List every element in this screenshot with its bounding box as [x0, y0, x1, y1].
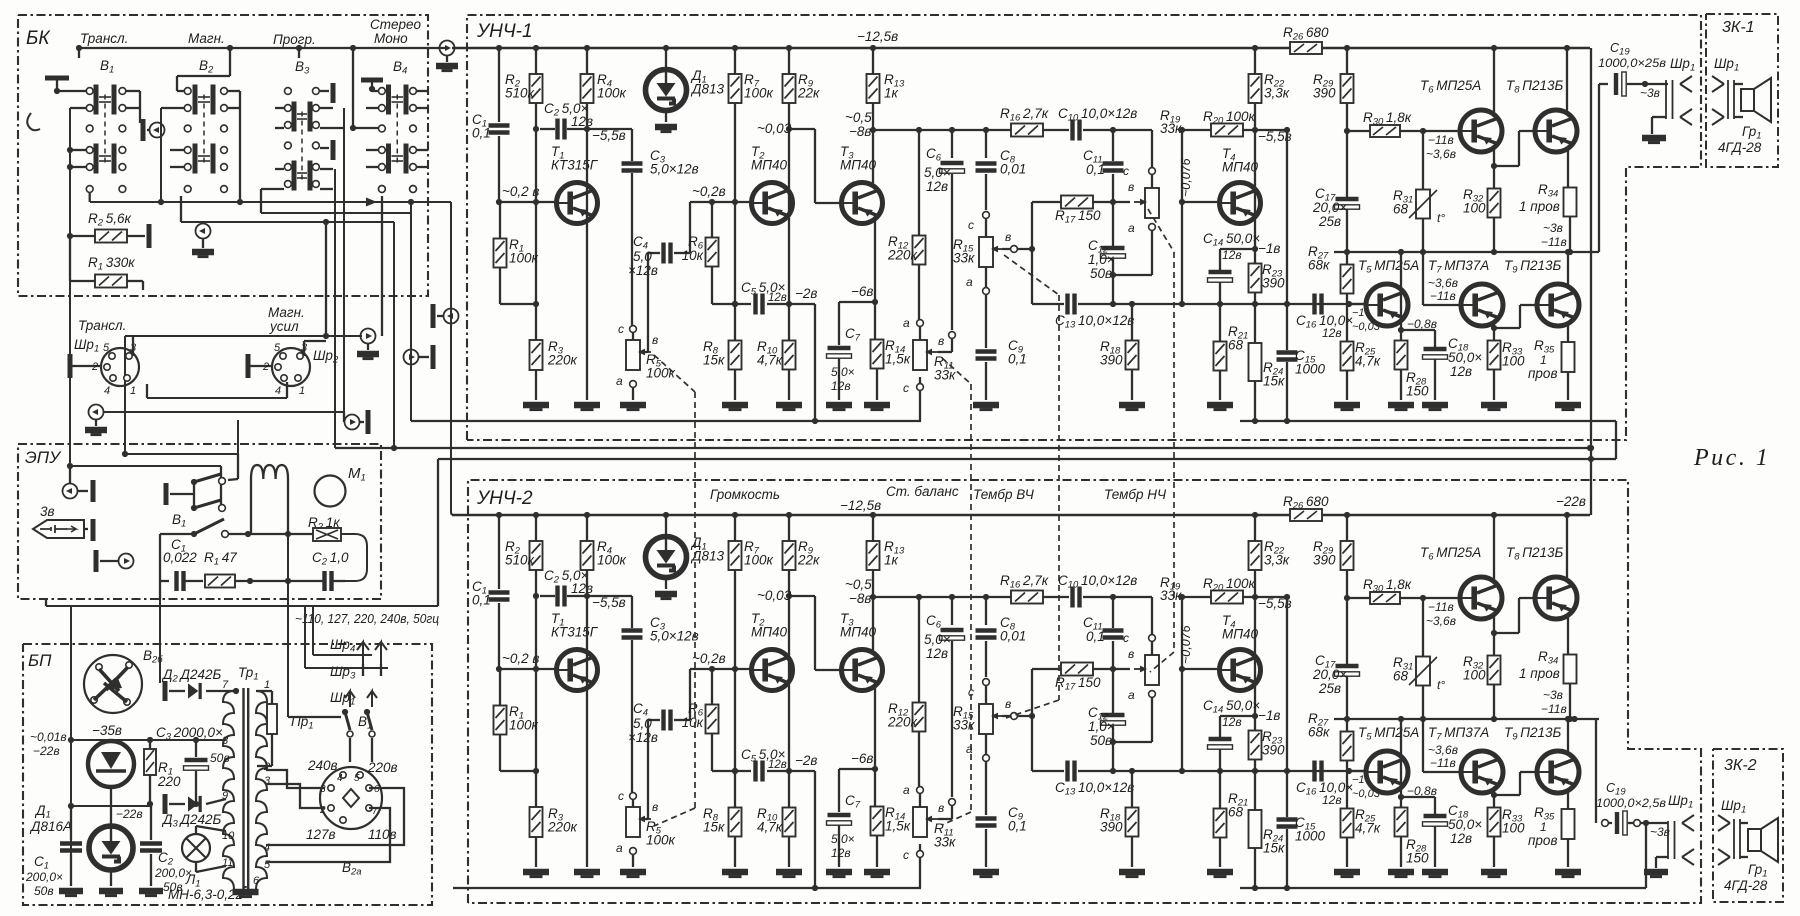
transistor T9 П213Б (УНЧ-2) — [1537, 751, 1579, 793]
connector grounded y336 — [361, 329, 376, 344]
resistor R27 68к (УНЧ-2) — [1341, 732, 1354, 761]
transistor T2 МП40 (УНЧ-1) — [752, 183, 793, 224]
wire row y398 under connectors — [147, 397, 287, 399]
mid rail (УНЧ-1) — [1334, 251, 1599, 253]
svg-text:−5,5в: −5,5в — [592, 595, 626, 610]
mechanical link balance R11 (dashed) — [942, 358, 971, 384]
svg-text:пров: пров — [1528, 833, 1558, 848]
svg-text:12в: 12в — [926, 179, 948, 194]
svg-text:50,0×: 50,0× — [1448, 817, 1482, 832]
wire T4 base feed vertical (УНЧ-2) — [1181, 597, 1183, 771]
wire T6 collector to bus (УНЧ-2) — [1493, 515, 1495, 579]
svg-text:R1 330к: R1 330к — [88, 255, 135, 273]
svg-text:−35в: −35в — [92, 723, 122, 738]
svg-text:5: 5 — [274, 342, 281, 354]
wire R13 to T3 (УНЧ-1) — [872, 103, 874, 183]
transistor T1 КТ315Г (УНЧ-1) — [557, 183, 598, 224]
wire T8 collector to bus (УНЧ-2) — [1566, 515, 1568, 578]
resistor R33 100 (УНЧ-1) — [1488, 341, 1501, 370]
wire long row y202 — [90, 201, 451, 203]
svg-text:4,7к: 4,7к — [757, 353, 783, 368]
lamp Л1 МН-6,3-0,22 — [182, 834, 210, 862]
svg-text:100: 100 — [1463, 668, 1486, 683]
svg-text:0,01: 0,01 — [1000, 162, 1026, 177]
right vertical x1616 — [1615, 421, 1617, 459]
svg-text:5,0×12в: 5,0×12в — [650, 162, 699, 177]
wire T4 base feed vertical (УНЧ-1) — [1181, 130, 1183, 304]
svg-text:~0,5: ~0,5 — [845, 110, 872, 125]
svg-text:68: 68 — [1393, 669, 1409, 684]
svg-text:10к: 10к — [682, 715, 704, 730]
interconnect bus y459 — [438, 458, 1616, 460]
capacitor C8 0,01 (УНЧ-1) — [985, 130, 987, 158]
svg-text:~3,6в: ~3,6в — [1426, 147, 1456, 161]
capacitor C7 5,0x12в (УНЧ-2) — [838, 769, 840, 812]
svg-text:12в: 12в — [926, 646, 948, 661]
svg-text:−2в: −2в — [795, 753, 817, 768]
block border УНЧ-1 — [467, 15, 1701, 440]
connector bars (ЗК-2) — [1733, 819, 1735, 859]
wire feedback drop (УНЧ-1) — [814, 304, 816, 421]
svg-text:68: 68 — [1228, 338, 1244, 353]
wire long row y213 — [261, 212, 411, 214]
svg-text:3в: 3в — [40, 504, 55, 519]
svg-text:150: 150 — [1406, 851, 1429, 866]
resistor R22 3,3к (УНЧ-1) — [1254, 48, 1256, 74]
wire R31 vertical (УНЧ-2) — [1422, 598, 1424, 657]
svg-text:−1в: −1в — [1258, 241, 1280, 256]
wire long row y222 — [181, 221, 394, 223]
capacitor C1 0,1 (УНЧ-2) — [489, 593, 510, 600]
svg-text:50в: 50в — [1090, 266, 1112, 281]
wire x238 into ЭПУ — [237, 420, 239, 454]
connector on x411 — [404, 350, 419, 365]
svg-text:68: 68 — [1228, 805, 1244, 820]
svg-text:15к: 15к — [1263, 374, 1285, 389]
bottom feedback bus (УНЧ-2) — [453, 887, 921, 889]
svg-text:5,0×: 5,0× — [924, 165, 951, 180]
transistor T3 МП40 (УНЧ-2) — [842, 650, 883, 691]
svg-text:с: с — [968, 218, 974, 232]
svg-text:33к: 33к — [953, 251, 975, 266]
connector x344 bottom — [343, 412, 345, 422]
resistor R35 1 пров (УНЧ-2) — [1562, 809, 1575, 839]
connector between В1 and В2 — [141, 119, 146, 141]
capacitor C16 10,0x12в (УНЧ-1) — [1315, 294, 1322, 315]
ground under Тр1 — [244, 886, 246, 888]
svg-text:×12в: ×12в — [628, 730, 658, 745]
svg-text:с: с — [1123, 631, 1129, 645]
svg-text:68: 68 — [1393, 202, 1409, 217]
resistor R24 15к (УНЧ-2) — [1254, 771, 1256, 812]
connector bars (ЗК-1) — [1727, 80, 1729, 119]
svg-text:15к: 15к — [1263, 841, 1285, 856]
svg-text:1к: 1к — [884, 553, 899, 568]
wire C1 to T1 base (УНЧ-2) — [499, 668, 556, 670]
capacitor C19 1000,0x25в (УНЧ-1) — [1616, 72, 1626, 96]
svg-text:4ГД-28: 4ГД-28 — [1724, 878, 1768, 893]
svg-text:в: в — [938, 801, 944, 815]
block border БК — [18, 15, 428, 296]
svg-text:~3,6в: ~3,6в — [1428, 276, 1458, 290]
block ЗК-2 — [1713, 749, 1783, 902]
block border БП — [23, 644, 432, 905]
wire T6 collector to bus (УНЧ-1) — [1493, 48, 1495, 112]
svg-text:12в: 12в — [1222, 715, 1242, 729]
plug return (УНЧ-1) — [1680, 109, 1692, 125]
transistor T8 П213Б (УНЧ-2) — [1535, 577, 1577, 619]
potentiometer R5 100к volume (УНЧ-1) — [630, 326, 637, 333]
svg-text:100к: 100к — [744, 86, 774, 101]
capacitor C13 10,0x12в (УНЧ-1) — [1068, 294, 1075, 315]
svg-text:25в: 25в — [1318, 214, 1341, 229]
svg-text:22к: 22к — [797, 86, 820, 101]
svg-text:1к: 1к — [884, 86, 899, 101]
supply bus -12,5в (УНЧ-2) — [452, 514, 1290, 516]
capacitor C16 10,0x12в (УНЧ-2) — [1315, 761, 1322, 782]
wire Шр2 pin stubs — [303, 341, 305, 356]
svg-text:~110, 127, 220, 240в, 50гц: ~110, 127, 220, 240в, 50гц — [295, 612, 439, 626]
capacitor C11 0,1 (УНЧ-2) — [1103, 631, 1124, 638]
svg-text:12в: 12в — [1450, 364, 1472, 379]
svg-text:220: 220 — [157, 774, 181, 789]
wire -6в row to C7 (УНЧ-2) — [839, 768, 875, 770]
resistor R12 220к (УНЧ-1) — [918, 130, 920, 236]
zener diode Д1 Д813 (УНЧ-2) — [665, 515, 667, 537]
right supply vertical x1591 — [1590, 48, 1592, 515]
wire x383 from В4 — [381, 196, 383, 336]
wire C4 to R5 wiper (УНЧ-2) — [647, 720, 649, 819]
wire to C3 (УНЧ-1) — [587, 128, 632, 130]
svg-text:20,0×: 20,0× — [1312, 200, 1347, 215]
svg-text:~3в: ~3в — [1640, 86, 1660, 100]
wire T9 emitter down (УНЧ-2) — [1567, 719, 1569, 754]
svg-text:12в: 12в — [571, 581, 593, 596]
svg-text:25в: 25в — [1318, 681, 1341, 696]
resistor R13 1к (УНЧ-2) — [872, 515, 874, 541]
wire x394 to bus448 — [393, 222, 395, 448]
svg-text:−11в: −11в — [1541, 235, 1567, 249]
terminal bar + connector lower — [94, 550, 99, 572]
svg-text:Трансл.: Трансл. — [80, 31, 128, 46]
capacitor C19 1000,0x25в (УНЧ-2) — [1602, 820, 1609, 827]
wire speaker return to bottom bus (УНЧ-2) — [1645, 823, 1647, 888]
svg-text:−12,5в: −12,5в — [840, 498, 881, 513]
input connector (УНЧ-1) — [440, 41, 455, 56]
svg-text:с: с — [618, 789, 624, 803]
svg-text:5,0: 5,0 — [633, 249, 652, 264]
svg-text:5: 5 — [103, 342, 110, 354]
svg-text:220к: 220к — [547, 353, 578, 368]
svg-text:127в: 127в — [306, 827, 336, 842]
resistor R21 68 (УНЧ-1) — [1219, 304, 1221, 342]
resistor R29 390 (УНЧ-1) — [1346, 48, 1348, 74]
wire В2 left leads — [161, 107, 184, 109]
svg-text:~0,2в: ~0,2в — [692, 651, 726, 666]
capacitor C6 5,0x12в (УНЧ-2) — [951, 597, 953, 625]
svg-text:R16 2,7к: R16 2,7к — [1000, 573, 1049, 591]
svg-text:Прогр.: Прогр. — [273, 32, 316, 47]
resistor R10 4,7к (УНЧ-1) — [783, 341, 796, 370]
svg-text:5,0×: 5,0× — [924, 632, 951, 647]
svg-text:R16 2,7к: R16 2,7к — [1000, 106, 1049, 124]
resistor R2 510к (УНЧ-1) — [535, 48, 537, 74]
capacitor C2 5,0x12в (УНЧ-1) — [558, 119, 565, 140]
terminal bar left of В1 — [45, 76, 69, 81]
connector under В2 — [196, 224, 211, 239]
svg-text:−6в: −6в — [851, 751, 873, 766]
wire feedback drop (УНЧ-2) — [814, 771, 816, 888]
connector in ЭПУ — [63, 484, 78, 499]
svg-text:510к: 510к — [505, 86, 535, 101]
svg-text:12в: 12в — [768, 759, 787, 771]
wire T3 base feed (УНЧ-1) — [789, 128, 815, 130]
transistor T7 МП37А (УНЧ-2) — [1461, 751, 1503, 793]
svg-text:1000: 1000 — [1295, 829, 1326, 844]
capacitor C13 10,0x12в (УНЧ-2) — [1068, 761, 1075, 782]
svg-text:1,0×: 1,0× — [1088, 719, 1115, 734]
wire rail to C19 (УНЧ-2) — [1595, 719, 1597, 823]
wire loop right of R2 — [341, 534, 367, 581]
svg-text:100к: 100к — [509, 251, 539, 266]
svg-text:0,1: 0,1 — [1086, 162, 1105, 177]
resistor R16 2,7к (УНЧ-2) — [1011, 591, 1043, 604]
svg-text:1: 1 — [130, 385, 136, 397]
resistor R25 4,7к (УНЧ-1) — [1346, 304, 1348, 342]
svg-text:МП40: МП40 — [1222, 160, 1259, 175]
svg-text:с: с — [903, 848, 909, 862]
resistor R4 100к (УНЧ-2) — [586, 515, 588, 541]
resistor R7 100к (УНЧ-2) — [734, 515, 736, 541]
wire R15 wiper to node (УНЧ-1) — [1002, 248, 1032, 250]
svg-text:0,1: 0,1 — [1086, 629, 1105, 644]
svg-text:3К-2: 3К-2 — [1724, 757, 1757, 774]
svg-text:220в: 220в — [367, 760, 398, 775]
resistor R29 390 (УНЧ-2) — [1346, 515, 1348, 541]
resistor R14 1,5к (УНЧ-1) — [871, 340, 884, 369]
svg-text:4ГД-28: 4ГД-28 — [1718, 140, 1762, 155]
svg-text:4,7к: 4,7к — [757, 820, 783, 835]
svg-text:КТ315Г: КТ315Г — [551, 625, 599, 640]
svg-text:390: 390 — [1262, 276, 1285, 291]
wire T2 base row (УНЧ-2) — [690, 668, 754, 670]
svg-text:R17 150: R17 150 — [1055, 208, 1101, 226]
wire R4 to T1 collector and ground (УНЧ-2) — [586, 570, 588, 867]
svg-text:~0,03: ~0,03 — [757, 121, 792, 136]
resistor R1 100к (УНЧ-1) — [499, 202, 501, 239]
block border ЭПУ — [18, 444, 381, 599]
transistor T3 МП40 (УНЧ-1) — [842, 183, 883, 224]
wire ЭПУ top row y454 — [125, 453, 238, 455]
svg-text:~0,03: ~0,03 — [757, 588, 792, 603]
wire x344 from В3 down — [343, 108, 345, 412]
resistor R23 390 (УНЧ-1) — [1249, 264, 1262, 293]
svg-text:Магн.: Магн. — [188, 31, 225, 46]
terminal bar above В4 — [361, 78, 383, 83]
wire T5 base (УНЧ-2) — [1349, 770, 1366, 772]
supply bus -12,5в (УНЧ-1) — [452, 47, 1290, 49]
transistor T1 КТ315Г (УНЧ-2) — [557, 650, 598, 691]
wire T9 emitter down (УНЧ-1) — [1567, 252, 1569, 287]
wire R22 to T4 down (УНЧ-1) — [1254, 103, 1256, 264]
svg-text:Громкость: Громкость — [710, 487, 780, 502]
resistor R32 100 (УНЧ-2) — [1488, 656, 1501, 685]
resistor R3 220к (УНЧ-2) — [530, 807, 543, 837]
capacitor C9 0,1 (УНЧ-1) — [976, 352, 997, 359]
resistor R32 100 (УНЧ-1) — [1488, 189, 1501, 218]
svg-text:150: 150 — [1406, 384, 1429, 399]
zener diode Д1 Д813 (УНЧ-1) — [665, 48, 667, 70]
wires to voltage selector — [349, 738, 351, 762]
wire В4 bottom circles — [379, 186, 386, 193]
wire T3 base feed (УНЧ-2) — [789, 595, 815, 597]
wire coil to БП x288 — [287, 534, 289, 599]
resistor R3 220к (УНЧ-1) — [530, 340, 543, 370]
resistor R13 1к (УНЧ-1) — [872, 48, 874, 74]
capacitor С1 200,0x50в (БП) — [70, 806, 72, 840]
svg-text:12в: 12в — [768, 292, 787, 304]
svg-text:R17 150: R17 150 — [1055, 675, 1101, 693]
svg-text:15к: 15к — [703, 353, 725, 368]
svg-text:R2 5,6к: R2 5,6к — [88, 211, 132, 229]
svg-text:Д813: Д813 — [690, 82, 725, 97]
wire T6 emitter to T8 base (УНЧ-2) — [1493, 615, 1495, 656]
svg-text:1000,0×2,5в: 1000,0×2,5в — [1596, 796, 1666, 810]
svg-text:110в: 110в — [368, 827, 397, 842]
svg-text:в: в — [1005, 230, 1011, 244]
svg-text:220к: 220к — [887, 248, 918, 263]
terminal bars В3 — [331, 83, 336, 103]
svg-text:С14 50,0×: С14 50,0× — [1203, 698, 1260, 716]
capacitor C12 1,0x50в (УНЧ-1) — [1101, 248, 1126, 258]
svg-text:с: с — [1123, 164, 1129, 178]
resistor R30 1,8к (УНЧ-1) — [1347, 130, 1371, 132]
resistor R1 100к (УНЧ-2) — [499, 669, 501, 706]
wire y459 corner down to mains row — [437, 459, 439, 606]
resistor R26 680 (УНЧ-2) — [1290, 509, 1322, 521]
svg-text:1: 1 — [1540, 820, 1547, 834]
capacitor С2 200,0x50в (БП) — [150, 804, 152, 840]
bottom feedback bus (УНЧ-1) — [411, 420, 921, 422]
svg-text:МП40: МП40 — [840, 625, 877, 640]
svg-text:R30 1,8к: R30 1,8к — [1363, 110, 1412, 128]
wire R31 to T7 base (УНЧ-1) — [1422, 252, 1424, 305]
svg-text:12в: 12в — [1450, 831, 1472, 846]
wire T7 emitter to T9 base (УНЧ-1) — [1493, 322, 1495, 341]
resistor R28 150 (УНЧ-2) — [1395, 808, 1408, 837]
svg-text:12в: 12в — [1322, 793, 1342, 807]
resistor R8 15к (УНЧ-2) — [729, 808, 742, 837]
capacitor C3 5,0x12в (УНЧ-2) — [631, 596, 633, 628]
svg-text:5,0: 5,0 — [633, 716, 652, 731]
svg-text:t°: t° — [1437, 678, 1445, 692]
svg-text:R20 100к: R20 100к — [1203, 576, 1256, 594]
svg-text:МП40: МП40 — [1222, 627, 1259, 642]
svg-text:−8в: −8в — [849, 591, 871, 606]
wire mains x288 down — [287, 599, 289, 717]
svg-text:−22в: −22в — [33, 744, 60, 758]
wire -6в row to C7 (УНЧ-1) — [839, 301, 875, 303]
wire x70 down to ЭПУ — [69, 281, 71, 484]
svg-text:50в: 50в — [210, 751, 230, 765]
svg-text:−11в: −11в — [1430, 756, 1456, 770]
wire x326 from В3 — [325, 222, 327, 336]
svg-text:а: а — [966, 742, 973, 756]
svg-text:Рис. 1: Рис. 1 — [1693, 445, 1770, 471]
svg-text:с: с — [618, 322, 624, 336]
wire base row y740 — [71, 739, 226, 741]
svg-text:220к: 220к — [887, 715, 918, 730]
terminal 7 wire — [233, 690, 234, 692]
wire C4 to R5 wiper (УНЧ-1) — [647, 253, 649, 352]
wire x335 from В3 down — [334, 169, 336, 448]
svg-text:R26 680: R26 680 — [1283, 25, 1329, 43]
potentiometer R19 33к (УНЧ-1) — [1113, 129, 1152, 131]
transistor T4 МП40 (УНЧ-1) — [1220, 183, 1261, 224]
svg-text:С2 1,0: С2 1,0 — [312, 550, 349, 568]
svg-text:БП: БП — [28, 651, 52, 670]
svg-text:КТ315Г: КТ315Г — [551, 158, 599, 173]
svg-text:~0,076: ~0,076 — [1179, 625, 1193, 664]
svg-text:3: 3 — [264, 775, 271, 787]
svg-text:усил: усил — [269, 319, 299, 334]
wire y130 row (УНЧ-1) — [873, 129, 1012, 131]
svg-text:−1в: −1в — [1258, 708, 1280, 723]
svg-text:12в: 12в — [1222, 248, 1242, 262]
svg-text:−22в: −22в — [1556, 494, 1586, 509]
capacitor C14 50,0x12в (УНЧ-1) — [1220, 248, 1255, 250]
motor M1 — [315, 476, 346, 507]
svg-text:4: 4 — [264, 842, 270, 854]
mechanical link volume R5 (dashed) — [654, 355, 695, 392]
svg-text:1,0×: 1,0× — [1088, 252, 1115, 267]
svg-text:20,0×: 20,0× — [1312, 667, 1347, 682]
potentiometer R15 33к (УНЧ-1) — [983, 212, 990, 219]
svg-text:5,0×: 5,0× — [831, 832, 855, 846]
wire БК top bus — [79, 47, 447, 49]
capacitor C4 5,0x12в (УНЧ-2) — [648, 719, 660, 721]
capacitor C15 1000 (УНЧ-2) — [1286, 597, 1288, 817]
resistor R17 150 (УНЧ-1) — [1032, 201, 1062, 203]
wire В1 right leads — [126, 90, 140, 92]
svg-text:−11в: −11в — [1541, 702, 1567, 716]
capacitor C14 50,0x12в (УНЧ-2) — [1220, 715, 1255, 717]
capacitor C5 5,0x12в (УНЧ-2) — [756, 761, 763, 782]
wire C10 node down (УНЧ-1) — [1110, 127, 1116, 133]
svg-text:240в: 240в — [307, 758, 338, 773]
svg-text:Трансл.: Трансл. — [78, 318, 126, 333]
svg-text:100к: 100к — [597, 86, 627, 101]
svg-text:390: 390 — [1262, 743, 1285, 758]
wire R22 to T4 down (УНЧ-2) — [1254, 570, 1256, 731]
resistor R6 10к (УНЧ-1) — [711, 202, 713, 238]
svg-text:3,3к: 3,3к — [1264, 86, 1290, 101]
voltage selector В2а — [320, 767, 382, 829]
transistor T6 МП25А (УНЧ-1) — [1460, 110, 1502, 152]
svg-text:5,0×: 5,0× — [831, 365, 855, 379]
wire R29 down (УНЧ-1) — [1346, 103, 1348, 197]
transistor T8 П213Б (УНЧ-1) — [1535, 110, 1577, 152]
resistor R6 10к (УНЧ-2) — [711, 669, 713, 705]
svg-text:−6в: −6в — [851, 284, 873, 299]
svg-text:100к: 100к — [646, 366, 676, 381]
svg-text:1: 1 — [299, 385, 305, 397]
svg-text:12в: 12в — [831, 379, 851, 393]
potentiometer R15 33к (УНЧ-2) — [983, 679, 990, 686]
svg-text:12в: 12в — [831, 846, 851, 860]
svg-text:3: 3 — [320, 784, 326, 795]
svg-text:1,5к: 1,5к — [885, 352, 911, 367]
